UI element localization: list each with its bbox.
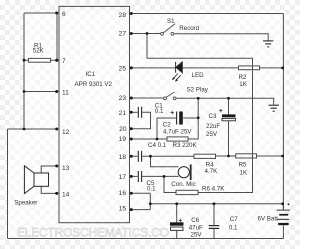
capacitor C7 plates [209, 226, 220, 229]
ground G1 (top right) [263, 41, 273, 47]
junction R1 left / VCC riser [23, 59, 26, 62]
capacitor C5 plates [138, 171, 141, 182]
wire mic top lead [151, 156, 179, 167]
wire C6 bottom stub [176, 231, 178, 239]
junction C2 right / S2 branch [197, 116, 200, 119]
pin 20 stub dot [130, 127, 133, 130]
svg-text:16: 16 [119, 190, 127, 197]
wire right border rail [282, 14, 284, 210]
resistor R6 box [176, 190, 198, 194]
pin 17 stub dot [130, 175, 133, 178]
wire pin25 to LED [130, 67, 176, 69]
svg-text:18: 18 [119, 154, 127, 161]
wire R5 to right border [257, 155, 284, 157]
capacitor C1 plates [138, 107, 141, 118]
junction C3 bottom / R4 / R5 [227, 155, 230, 158]
junction R2 right on border [281, 67, 284, 70]
capacitor C2 plates (electrolytic) [171, 111, 183, 125]
capacitor C6 plates (electrolytic) [170, 219, 184, 231]
pin 21 stub dot [130, 111, 133, 114]
wire right border lower (battery minus to bottom) [282, 226, 284, 239]
svg-text:6: 6 [62, 11, 66, 18]
wire S1 branch down [147, 34, 253, 193]
svg-text:19: 19 [119, 136, 127, 143]
svg-text:25V: 25V [206, 131, 218, 138]
svg-text:C4 0.1: C4 0.1 [148, 142, 167, 149]
svg-text:14: 14 [62, 191, 70, 198]
IC U1 APR9301 outline [59, 6, 130, 222]
wire R6 to mic node [164, 176, 176, 192]
pin 6 stub dot [55, 12, 58, 15]
svg-text:52K: 52K [33, 48, 45, 55]
wire C6 top stub [176, 204, 178, 223]
wire pin13 to speaker [41, 166, 59, 173]
resistor R1 box [29, 58, 51, 62]
svg-text:15: 15 [119, 205, 127, 212]
svg-text:S1: S1 [167, 18, 175, 25]
ground G2 (middle right) [268, 105, 279, 111]
resistor R3 box [167, 137, 188, 141]
junction C7 top on analog rail [213, 202, 216, 205]
svg-text:APR 9301 V2: APR 9301 V2 [75, 81, 113, 88]
wire S1 to top-right ground [174, 34, 268, 41]
pin 12 stub dot [55, 128, 58, 131]
svg-text:27: 27 [119, 30, 127, 37]
pin 27 stub dot [130, 32, 133, 35]
wire R1 row to pin7 [24, 59, 59, 61]
wire S2 to ground G2 [176, 98, 274, 105]
svg-text:C6: C6 [191, 217, 199, 224]
svg-text:0.1: 0.1 [229, 225, 238, 232]
pin 25 stub dot [130, 66, 133, 69]
svg-text:ELECTROSCHEMATICS.CO: ELECTROSCHEMATICS.CO [17, 226, 169, 240]
switch S2 contacts and lever [164, 92, 176, 100]
wire C3 top stub [228, 98, 230, 114]
svg-text:20: 20 [119, 126, 127, 133]
wire S2 branch down to C2/R3 node [188, 98, 198, 139]
capacitor C3 plates (electrolytic) [219, 109, 235, 121]
microphone MIC symbol [178, 164, 191, 180]
speaker SPK symbol [24, 166, 48, 194]
svg-text:S2 Play: S2 Play [187, 87, 209, 94]
battery BT1 6V cells [277, 210, 290, 226]
svg-text:R6 4.7K: R6 4.7K [202, 186, 225, 193]
wire LED to R2 [182, 67, 238, 69]
svg-text:6V Batt: 6V Batt [258, 215, 279, 222]
junction battery plus on analog rail [281, 202, 284, 205]
wire left border rail [7, 129, 9, 239]
LED D1 symbol [172, 62, 182, 82]
wire R1 right riser (pin6 to pin7) [56, 13, 58, 60]
svg-text:1K: 1K [239, 81, 247, 88]
pin 7 stub dot [55, 59, 58, 62]
junction C2 left on pin19 wire [156, 138, 159, 141]
junction C3 top on ground rail [227, 97, 230, 100]
svg-text:11: 11 [62, 89, 69, 96]
junction R6 branch on pin17 wire [163, 175, 166, 178]
wire pin16-pin15 vertical [149, 193, 151, 209]
capacitor C4 plates [138, 151, 141, 162]
pin 16 stub dot [130, 192, 133, 195]
svg-text:C3: C3 [209, 113, 217, 120]
wire pin27 to S1 [130, 33, 161, 35]
svg-text:C7: C7 [230, 216, 238, 223]
junction S1 branch on pin27 wire [146, 32, 149, 35]
pin 18 stub dot [130, 155, 133, 158]
pin 15 stub dot [130, 208, 133, 211]
svg-text:25V: 25V [191, 232, 203, 239]
wire R4 to R5 [216, 155, 236, 157]
svg-text:23: 23 [119, 95, 127, 102]
svg-text:47uF: 47uF [189, 225, 203, 232]
wire C3 bottom stub [228, 121, 230, 156]
junction pin15/16 on analog rail [149, 202, 152, 205]
pin 23 stub dot [130, 97, 133, 100]
wire VCC top rail right (pin28 to right border) [130, 13, 284, 15]
wire pin16 [130, 192, 151, 194]
stray dot right of battery junction [288, 203, 290, 205]
wire pin11 [24, 91, 59, 93]
svg-text:7: 7 [62, 58, 66, 65]
svg-text:28: 28 [119, 12, 127, 19]
svg-text:4.7K: 4.7K [205, 168, 219, 175]
junction pin12 rail / left riser [23, 128, 26, 131]
wire pin21 to C1 [130, 111, 138, 113]
svg-text:R3 220K: R3 220K [173, 142, 198, 149]
resistor R4 box [194, 154, 216, 158]
junction mic lead on pin18 wire [149, 155, 152, 158]
wire C7 top stub [213, 204, 215, 225]
wire pin18 to C4 [130, 155, 138, 157]
wire pin19 to R3 [130, 138, 168, 140]
resistor R5 box [236, 154, 257, 158]
svg-text:25: 25 [119, 65, 127, 72]
wire pin12 rail [8, 128, 60, 130]
wire C4 to R4 [142, 155, 194, 157]
junction C6 top on analog rail [175, 202, 178, 205]
resistor R2 box [239, 66, 260, 70]
svg-text:C2: C2 [163, 121, 171, 128]
svg-text:22uF: 22uF [206, 123, 220, 130]
wire C1 loop to pin20 [130, 112, 151, 129]
svg-text:12: 12 [62, 129, 70, 136]
wire pin17 to mic lower lead [130, 175, 138, 177]
junction R5 right on border [281, 155, 284, 158]
svg-text:IC1: IC1 [86, 71, 96, 78]
junction S2 branch on ground rail [197, 97, 200, 100]
pin 19 stub dot [130, 138, 133, 141]
svg-text:21: 21 [119, 110, 127, 117]
wire C7 bottom stub [213, 229, 215, 239]
pin 11 stub dot [55, 90, 58, 93]
wire bottom ground rail [8, 238, 284, 240]
svg-text:17: 17 [119, 174, 127, 181]
junction pin11 wire / left riser [23, 90, 26, 93]
wire pin23 to S2 [130, 97, 164, 99]
wire C2 to S2 branch node [183, 117, 198, 119]
svg-text:Record: Record [179, 25, 200, 32]
svg-text:LED: LED [192, 72, 205, 79]
svg-text:Speaker: Speaker [14, 199, 37, 206]
wire R2 to right border [260, 67, 284, 69]
wire left riser x24 [23, 13, 25, 129]
pin 28 stub dot [130, 12, 133, 15]
svg-text:4.7uF 25V: 4.7uF 25V [163, 129, 192, 136]
svg-text:1K: 1K [240, 169, 248, 176]
junction R1 right / pin7 riser [56, 59, 59, 62]
wire battery top stub [282, 204, 284, 210]
svg-text:0.1: 0.1 [147, 185, 156, 192]
svg-text:0.1: 0.1 [155, 108, 164, 115]
svg-text:Con. Mic: Con. Mic [171, 181, 195, 188]
switch S1 contacts and lever [161, 24, 176, 36]
svg-text:R5: R5 [239, 162, 247, 169]
wire pin15 [130, 209, 151, 211]
pin 14 stub dot [55, 192, 58, 195]
wire analog ground rail [150, 203, 283, 205]
labels [62, 11, 127, 213]
wire C2 branch from pin19 wire [157, 118, 176, 139]
svg-text:13: 13 [62, 165, 70, 172]
pin 13 stub dot [55, 165, 58, 168]
wire VCC top rail left (pin6 to R1 riser) [24, 12, 59, 14]
wire pin14 to speaker [41, 186, 59, 193]
wire C5 to mic [142, 175, 178, 177]
